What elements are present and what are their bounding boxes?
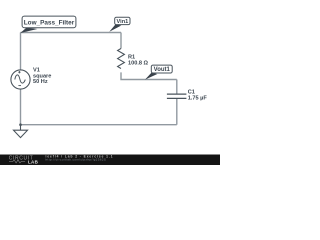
footer CircuitLab logo bbox=[9, 156, 39, 165]
V1 value label bbox=[33, 68, 51, 85]
svg-text:Low_Pass_Filter: Low_Pass_Filter bbox=[24, 19, 75, 26]
net flag Vout1 bbox=[145, 65, 172, 80]
wire bottom horizontal (ground net) bbox=[21, 124, 177, 126]
svg-text:100.8 Ω: 100.8 Ω bbox=[128, 61, 149, 67]
wire capacitor bottom lead bbox=[176, 98, 178, 124]
svg-text:Vout1: Vout1 bbox=[154, 67, 171, 73]
wire capacitor top lead bbox=[176, 80, 178, 95]
wire left vertical (source top lead) bbox=[20, 33, 22, 71]
wire source bottom lead bbox=[20, 89, 22, 125]
R1 value label bbox=[128, 55, 149, 67]
svg-text:50 Hz: 50 Hz bbox=[33, 79, 48, 85]
svg-text:LAB: LAB bbox=[28, 159, 39, 164]
footer bar bbox=[0, 155, 220, 166]
svg-text:1.75 µF: 1.75 µF bbox=[188, 96, 208, 102]
junction dot at ground node bbox=[19, 123, 22, 126]
capacitor C1 bbox=[167, 94, 187, 98]
C1 value label bbox=[188, 90, 208, 102]
svg-text:Vin1: Vin1 bbox=[117, 19, 129, 25]
resistor R1 bbox=[118, 49, 125, 69]
wire resistor bottom lead to Vout corner bbox=[121, 72, 177, 79]
wire resistor top lead bbox=[120, 33, 122, 49]
voltage source V1 bbox=[11, 70, 30, 89]
svg-text:C1: C1 bbox=[188, 90, 195, 96]
wire top horizontal (node Vin) bbox=[21, 32, 122, 34]
net flag Vin1 bbox=[109, 17, 130, 32]
ground bbox=[14, 125, 28, 138]
net flag Low_Pass_Filter bbox=[20, 16, 76, 33]
svg-text:http://circuitlab.com/c/pxhp/l: http://circuitlab.com/c/pxhp/lg2562S bbox=[46, 158, 107, 162]
